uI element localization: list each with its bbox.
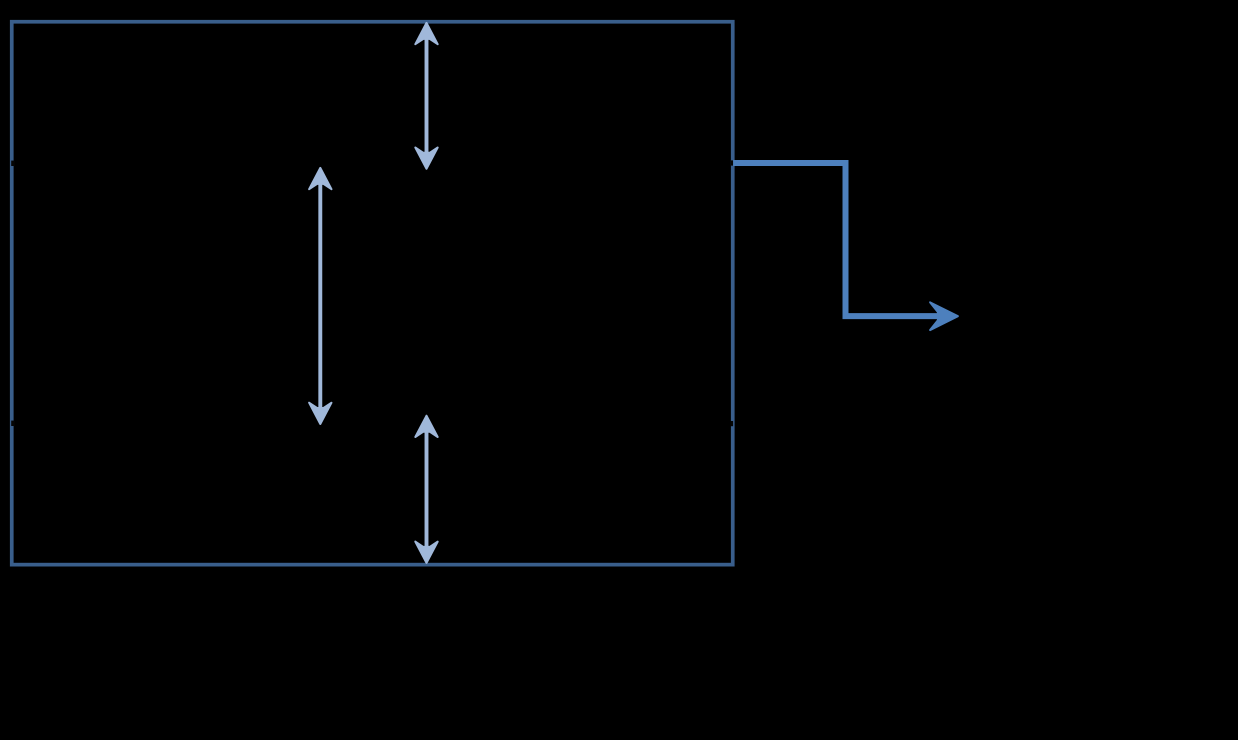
top double-headed arrow (upper center, between top edge and interior) — [415, 23, 437, 169]
notch left lower (dark tick on left border) — [11, 421, 15, 426]
notch left upper (dark tick on left border) — [11, 161, 15, 166]
notch right upper (dark tick on right border at connector joint) — [731, 160, 733, 165]
notch right lower (dark tick on right border) — [731, 421, 734, 426]
left double-headed arrow (middle, left of center) — [309, 168, 331, 424]
bottom double-headed arrow (lower center, between interior and bottom edge) — [415, 416, 437, 563]
outer box (rectangle outline) — [12, 22, 733, 565]
elbow connector with arrowhead (from right edge of box: right, down, right) — [733, 163, 958, 330]
